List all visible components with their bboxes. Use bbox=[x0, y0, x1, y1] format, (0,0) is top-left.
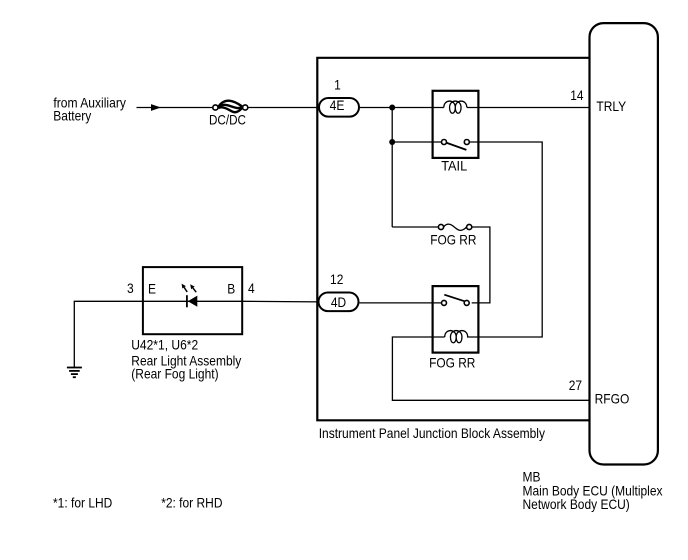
svg-text:3: 3 bbox=[127, 280, 134, 296]
svg-text:12: 12 bbox=[330, 271, 343, 287]
svg-text:RFGO: RFGO bbox=[595, 391, 630, 407]
wire: 4E to TAIL relay coil bbox=[360, 107, 444, 109]
connector 4D bbox=[319, 293, 359, 312]
svg-text:4E: 4E bbox=[330, 97, 345, 113]
svg-text:1: 1 bbox=[334, 77, 341, 93]
label "from Auxiliary Battery" bbox=[53, 94, 126, 123]
svg-text:FOG RR: FOG RR bbox=[430, 232, 476, 248]
relay FOG RR coil bbox=[445, 331, 468, 343]
relay FOG RR bbox=[433, 286, 479, 353]
wire through rear light assembly bbox=[143, 300, 242, 302]
svg-text:27: 27 bbox=[569, 377, 582, 393]
wire: fuse to FOG RR relay switch bbox=[472, 227, 490, 303]
svg-text:B: B bbox=[227, 281, 235, 297]
LED arrow 1 bbox=[184, 287, 187, 292]
svg-text:FOG RR: FOG RR bbox=[429, 355, 475, 371]
ground bbox=[67, 368, 82, 378]
noise filter DC/DC bbox=[213, 101, 248, 113]
svg-text:(Rear Fog Light): (Rear Fog Light) bbox=[131, 365, 218, 381]
relay TAIL coil bbox=[444, 101, 467, 113]
junction node B (TAIL switch row) bbox=[389, 139, 395, 145]
svg-text:U42*1, U6*2: U42*1, U6*2 bbox=[131, 336, 198, 352]
LED D1 (rear fog light) bbox=[182, 284, 198, 308]
connector 4E bbox=[319, 97, 359, 117]
wire: battery feed arrow into DC/DC bbox=[137, 104, 213, 111]
svg-text:Instrument Panel Junction Bloc: Instrument Panel Junction Block Assembly bbox=[319, 425, 545, 441]
svg-text:TRLY: TRLY bbox=[596, 98, 626, 114]
svg-text:Network Body ECU): Network Body ECU) bbox=[523, 496, 630, 512]
relay TAIL bbox=[433, 91, 479, 158]
wire: node vertical to fuse FOG RR bbox=[392, 226, 438, 228]
wire: DC/DC to connector 4E bbox=[248, 107, 319, 109]
wire: node B to TAIL switch bbox=[392, 141, 441, 143]
svg-text:14: 14 bbox=[570, 87, 583, 103]
svg-text:TAIL: TAIL bbox=[441, 158, 467, 174]
svg-text:4: 4 bbox=[248, 280, 255, 296]
Rear Light Assembly box bbox=[143, 267, 242, 334]
wire: FOG RR coil left, down and right to ECU pin 27 bbox=[392, 337, 589, 400]
svg-text:DC/DC: DC/DC bbox=[209, 112, 246, 128]
fuse FOG RR bbox=[438, 224, 471, 230]
wire: TAIL coil to ECU pin 14 bbox=[467, 107, 590, 109]
junction node A (4E row) bbox=[389, 105, 395, 111]
LED arrow 2 bbox=[193, 288, 196, 292]
relay FOG RR switch contacts bbox=[442, 300, 447, 305]
Instrument Panel Junction Block Assembly box bbox=[317, 58, 589, 421]
svg-text:*1: for LHD: *1: for LHD bbox=[53, 495, 112, 511]
svg-text:4D: 4D bbox=[331, 294, 346, 310]
wire: vertical drop from node A to fuse row bbox=[391, 108, 393, 228]
label MB / Main Body ECU (Multiplex Network Body ECU) bbox=[523, 468, 663, 512]
Main Body ECU box bbox=[590, 23, 658, 464]
svg-text:*2: for RHD: *2: for RHD bbox=[161, 495, 222, 511]
wire: rear light pin 3 to ground bbox=[74, 301, 143, 367]
wire: 4D to FOG RR relay switch bbox=[360, 302, 442, 304]
wire: rear light pin 4 to connector 4D bbox=[242, 300, 319, 303]
wire: TAIL switch right, down to FOG RR relay coil bbox=[467, 142, 542, 337]
relay TAIL switch contacts bbox=[442, 140, 447, 145]
svg-text:Battery: Battery bbox=[53, 108, 91, 124]
svg-text:E: E bbox=[148, 281, 156, 297]
